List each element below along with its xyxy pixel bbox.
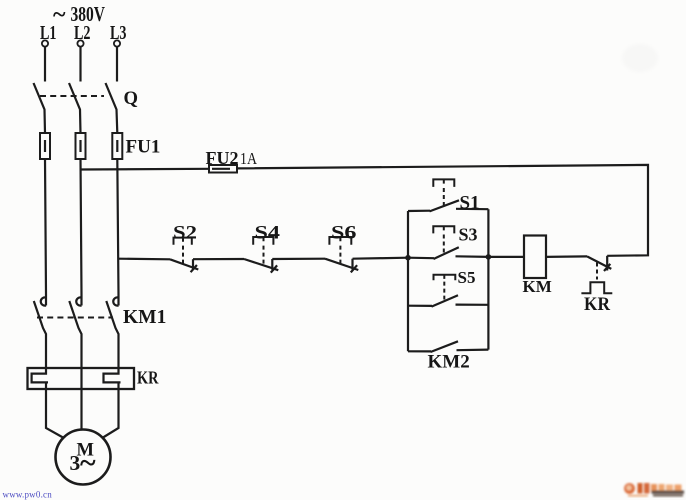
svg-text:L3: L3 (110, 22, 127, 44)
svg-text:S6: S6 (331, 222, 357, 243)
svg-text:S5: S5 (458, 268, 476, 287)
svg-text:L2: L2 (74, 22, 91, 44)
svg-text:L1: L1 (40, 22, 57, 44)
svg-text:KM: KM (523, 277, 552, 296)
svg-text:Q: Q (124, 88, 139, 109)
svg-text:~: ~ (80, 447, 96, 480)
svg-text:KR: KR (137, 367, 159, 387)
svg-text:S2: S2 (173, 222, 197, 243)
svg-text:S4: S4 (255, 222, 281, 243)
svg-text:KM1: KM1 (123, 307, 166, 328)
svg-text:S1: S1 (460, 192, 480, 213)
svg-text:3: 3 (70, 451, 81, 475)
svg-text:KM2: KM2 (428, 352, 470, 373)
svg-text:1A: 1A (240, 149, 258, 168)
svg-text:www.pw0.cn: www.pw0.cn (3, 489, 53, 499)
svg-text:S3: S3 (459, 224, 478, 244)
svg-text:FU2: FU2 (206, 148, 239, 168)
svg-text:FU1: FU1 (126, 137, 161, 158)
svg-text:KR: KR (584, 294, 610, 315)
